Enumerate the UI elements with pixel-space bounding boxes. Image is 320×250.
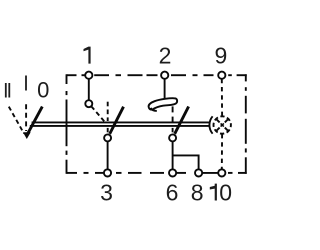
wire terminal 2 down to bridge contact bbox=[164, 79, 166, 100]
bridging contact shoe toe hook bbox=[151, 108, 157, 111]
mechanical linkage bar upper line bbox=[32, 121, 210, 123]
terminal 10 circle bbox=[218, 169, 225, 176]
terminal 8 circle bbox=[195, 169, 202, 176]
wire contact to terminal 3 bbox=[107, 141, 109, 169]
mechanical coupling arc at lamp bbox=[209, 116, 212, 133]
lamp L dashed circle bbox=[214, 116, 231, 133]
terminal 9 circle bbox=[218, 72, 225, 79]
switch lever (position 0, solid) bbox=[27, 107, 43, 136]
dashed alternate vertical for contact 3 arm bbox=[107, 102, 109, 133]
terminal 6 circle bbox=[169, 169, 176, 176]
svg-text:2: 2 bbox=[159, 43, 172, 69]
svg-text:0: 0 bbox=[219, 179, 232, 205]
lamp X arm NE bbox=[225, 119, 229, 123]
enclosure dash-dot box top edge bbox=[67, 74, 247, 76]
terminal 2 circle bbox=[161, 72, 168, 79]
wire bottom edge solid segment terminal 8 to 10 bbox=[202, 172, 218, 174]
svg-text:0: 0 bbox=[37, 78, 49, 103]
mechanical linkage bar lower line bbox=[30, 125, 210, 127]
position label II bbox=[5, 83, 10, 98]
movable contact arm to terminal 6 bbox=[175, 107, 189, 134]
lever pivot arrowhead bbox=[23, 132, 31, 139]
contact circle of terminal 3 bbox=[104, 134, 111, 141]
dashed wire lamp to terminal 10 bbox=[221, 134, 223, 169]
svg-text:8: 8 bbox=[191, 179, 204, 205]
wire bottom edge solid segment terminal 6 to 8 bbox=[176, 172, 186, 174]
enclosure dash-dot box right edge bbox=[245, 74, 247, 174]
dashed wire terminal 9 to lamp bbox=[221, 79, 223, 116]
terminal 1 circle bbox=[85, 72, 92, 79]
svg-text:9: 9 bbox=[215, 43, 228, 69]
lamp X arm NW bbox=[216, 119, 220, 123]
position label I bbox=[25, 76, 27, 91]
lamp X arm SW bbox=[216, 128, 220, 132]
enclosure dash-dot box bottom edge bbox=[67, 172, 247, 174]
contact circle of terminal 1 bbox=[85, 100, 92, 107]
lamp center x mark bbox=[221, 123, 224, 126]
movable contact arm to terminal 3 bbox=[110, 107, 124, 134]
wire branch to terminal 8 bbox=[173, 155, 199, 169]
lever alternate position II dashed line bbox=[9, 107, 24, 134]
wire contact to terminal 6 bbox=[172, 141, 174, 169]
svg-text:3: 3 bbox=[100, 179, 113, 205]
bridging contact shoe of terminal 2 bbox=[149, 98, 178, 109]
terminal label 1 bbox=[84, 47, 91, 64]
lamp X arm SE bbox=[225, 128, 229, 132]
contact circle of terminal 6 bbox=[169, 134, 176, 141]
dashed alternate contact arm from terminal 1 contact bbox=[91, 106, 104, 121]
lever alternate position I dashed line bbox=[25, 104, 27, 131]
wire terminal 1 down to contact bbox=[88, 79, 90, 101]
terminal 3 circle bbox=[104, 169, 111, 176]
terminal label 10 bbox=[210, 184, 217, 201]
dashed alternate vertical for contact 6 arm bbox=[172, 106, 174, 132]
enclosure dash-dot box left edge bbox=[66, 74, 68, 174]
svg-text:6: 6 bbox=[166, 179, 179, 205]
